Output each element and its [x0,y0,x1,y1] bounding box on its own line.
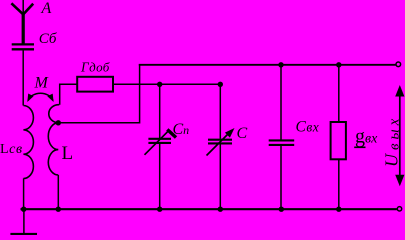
svg-text:Гдоб: Гдоб [80,59,110,74]
node dot tap on L [56,120,61,125]
node dot C bottom [218,207,223,212]
node dot gвх top [336,62,341,67]
wire down to Cп [159,84,161,138]
capacitor Свх [269,140,295,145]
node dot Свх bottom [279,207,284,212]
inductor Lсв [23,106,33,179]
node dot gвх bottom [336,207,341,212]
wire Свх bottom [280,146,282,209]
wire C bottom [219,144,221,209]
wire riser up [139,64,141,124]
terminal circle top right [396,62,401,67]
ground [10,209,37,234]
node dot at C top [218,82,223,87]
node dot L bottom [56,207,61,212]
resistor gвх [331,122,346,159]
wire Lсв bottom [23,179,25,210]
svg-text:L: L [62,143,74,164]
wire Cп bottom [159,144,161,209]
resistor Гдоб [77,77,113,92]
variable capacitor Cп [145,130,177,155]
node dot Lсв bottom [21,207,26,212]
wire tap to riser [58,122,139,124]
svg-text:А: А [41,0,52,17]
svg-text:М: М [34,74,50,91]
bottom bus wire [21,208,397,210]
mutual inductance arrow M [27,93,53,102]
svg-text:Свх: Свх [296,119,320,136]
svg-text:Сб: Сб [39,31,57,47]
terminal circle bottom right [397,207,401,211]
wire resistor left to coil L top [60,84,77,104]
svg-text:Lсв: Lсв [0,142,23,157]
capacitor Cб [12,44,34,49]
svg-text:Сп: Сп [173,121,190,138]
node dot Свх top [278,62,283,67]
node dot at Cп top [157,82,162,87]
wire resistor right bus [113,83,220,85]
wire L bottom [57,175,59,209]
wire down to Свх [280,65,282,140]
node dot Cп bottom [157,207,162,212]
wire antenna to coil [22,50,24,105]
wire gвх bottom [338,159,340,209]
inductor L [48,105,59,175]
variable capacitor C [207,128,235,156]
wire down to gвх [338,65,340,122]
top bus wire [139,64,396,66]
wire down to C [219,84,221,138]
antenna A [11,0,33,44]
svg-text:С: С [237,125,248,142]
output arrow Uвых [395,85,404,186]
